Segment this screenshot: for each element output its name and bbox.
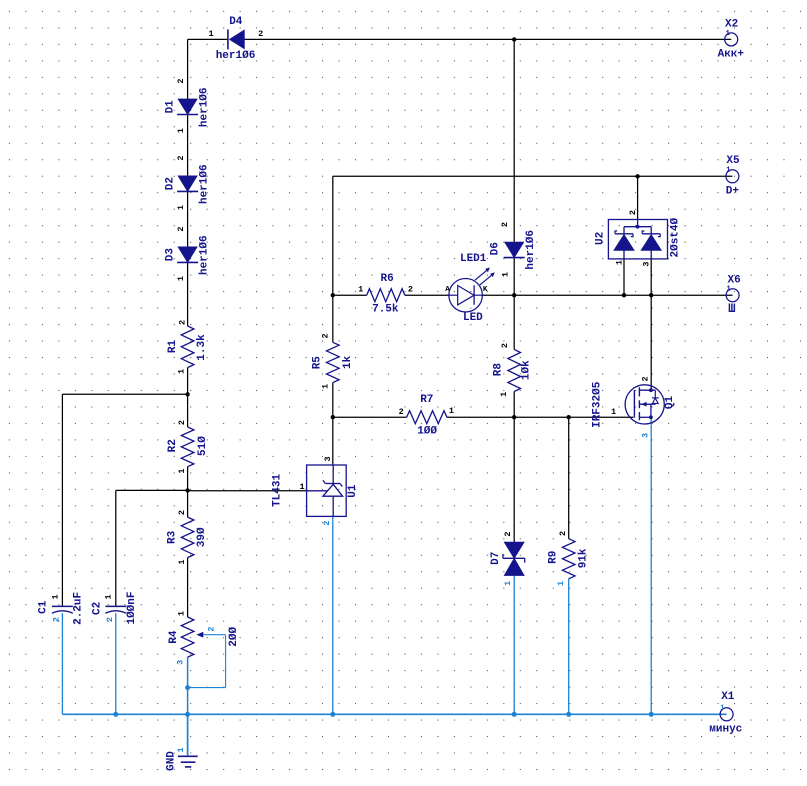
svg-text:1: 1: [177, 468, 187, 473]
svg-text:LED: LED: [463, 312, 483, 324]
svg-text:2: 2: [177, 320, 187, 325]
svg-text:R5: R5: [311, 356, 323, 370]
svg-text:51Ø: 51Ø: [197, 436, 209, 456]
svg-text:1: 1: [726, 30, 730, 38]
svg-text:1: 1: [176, 205, 186, 210]
svg-text:2: 2: [176, 78, 186, 83]
svg-text:2: 2: [500, 343, 510, 348]
svg-text:2: 2: [641, 376, 651, 381]
svg-text:1k: 1k: [342, 355, 354, 369]
svg-text:GND: GND: [166, 751, 178, 771]
svg-text:1: 1: [177, 559, 187, 564]
svg-text:U1: U1: [347, 484, 359, 498]
svg-text:2ØØ: 2ØØ: [228, 627, 240, 647]
svg-text:D3: D3: [165, 248, 177, 262]
svg-text:her1Ø6: her1Ø6: [198, 87, 210, 127]
svg-text:1: 1: [176, 611, 186, 616]
svg-text:D1: D1: [165, 100, 177, 114]
svg-text:2.2uF: 2.2uF: [73, 592, 85, 625]
svg-text:R3: R3: [167, 530, 179, 544]
svg-text:2: 2: [177, 420, 187, 425]
svg-text:7.5k: 7.5k: [372, 304, 399, 316]
svg-text:Ш: Ш: [728, 302, 736, 316]
svg-text:D7: D7: [490, 552, 502, 565]
svg-text:91k: 91k: [577, 548, 589, 568]
svg-text:U2: U2: [595, 232, 607, 245]
svg-text:C2: C2: [92, 602, 104, 615]
svg-text:1: 1: [726, 285, 730, 293]
svg-text:1ØØ: 1ØØ: [417, 426, 437, 438]
svg-text:1: 1: [501, 272, 511, 277]
svg-text:2: 2: [500, 222, 510, 227]
svg-text:2: 2: [176, 155, 186, 160]
svg-text:D+: D+: [726, 185, 740, 197]
svg-text:1: 1: [726, 167, 730, 175]
svg-text:1: 1: [720, 704, 724, 712]
svg-text:TL431: TL431: [271, 474, 283, 507]
svg-text:2: 2: [258, 29, 263, 39]
svg-text:her1Ø6: her1Ø6: [198, 164, 210, 204]
svg-text:her1Ø6: her1Ø6: [198, 235, 210, 275]
svg-text:1: 1: [176, 747, 186, 752]
svg-text:1ØØnF: 1ØØnF: [126, 591, 138, 624]
svg-text:R6: R6: [380, 273, 393, 285]
svg-text:LED1: LED1: [460, 253, 487, 265]
svg-text:her1Ø6: her1Ø6: [216, 50, 256, 62]
svg-text:1: 1: [177, 369, 187, 374]
svg-text:2: 2: [399, 407, 404, 417]
svg-text:3: 3: [641, 433, 651, 438]
svg-text:1: 1: [449, 406, 454, 416]
svg-text:1: 1: [176, 276, 186, 281]
svg-text:3: 3: [176, 660, 186, 665]
svg-text:R1: R1: [167, 340, 179, 354]
svg-text:1: 1: [611, 407, 616, 417]
svg-text:X5: X5: [726, 155, 740, 167]
svg-text:R7: R7: [420, 394, 433, 406]
svg-text:минус: минус: [709, 724, 742, 736]
svg-text:3: 3: [641, 262, 651, 267]
svg-text:X1: X1: [721, 691, 735, 703]
svg-text:her1Ø6: her1Ø6: [525, 230, 537, 270]
svg-text:Акк+: Акк+: [718, 48, 745, 60]
svg-text:2: 2: [628, 210, 638, 215]
svg-text:2: 2: [177, 510, 187, 515]
svg-text:R9: R9: [547, 551, 559, 564]
svg-text:1: 1: [499, 392, 509, 397]
svg-text:1: 1: [300, 482, 305, 492]
svg-text:1: 1: [104, 594, 114, 599]
svg-text:2Øst4Ø: 2Øst4Ø: [670, 217, 682, 257]
svg-text:1Øk: 1Øk: [521, 360, 533, 380]
svg-text:3: 3: [323, 456, 333, 461]
svg-text:R4: R4: [168, 630, 180, 644]
svg-text:Q1: Q1: [664, 396, 676, 410]
svg-text:2: 2: [322, 520, 332, 525]
svg-text:1: 1: [176, 128, 186, 133]
svg-text:IRF32Ø5: IRF32Ø5: [591, 381, 603, 428]
svg-text:C1: C1: [38, 600, 50, 614]
svg-text:1.3k: 1.3k: [196, 334, 208, 361]
svg-text:2: 2: [206, 626, 216, 631]
svg-text:X2: X2: [725, 18, 738, 30]
svg-text:1: 1: [556, 581, 566, 586]
svg-text:R8: R8: [492, 363, 504, 377]
svg-text:2: 2: [321, 333, 331, 338]
svg-text:D4: D4: [229, 16, 243, 28]
svg-text:D6: D6: [490, 242, 502, 255]
svg-text:K: K: [483, 286, 488, 294]
svg-text:1: 1: [615, 260, 625, 265]
svg-text:D2: D2: [165, 177, 177, 190]
svg-text:2: 2: [408, 285, 413, 295]
svg-text:R2: R2: [167, 439, 179, 452]
svg-text:2: 2: [503, 531, 513, 536]
svg-text:1: 1: [503, 581, 513, 586]
svg-text:2: 2: [558, 531, 568, 536]
svg-text:1: 1: [321, 384, 331, 389]
svg-text:A: A: [445, 286, 450, 294]
svg-text:2: 2: [105, 617, 115, 622]
svg-text:1: 1: [208, 29, 213, 39]
svg-text:1: 1: [358, 285, 363, 295]
svg-text:2: 2: [176, 226, 186, 231]
svg-text:2: 2: [51, 617, 61, 622]
svg-text:1: 1: [50, 594, 60, 599]
svg-text:39Ø: 39Ø: [196, 527, 208, 547]
